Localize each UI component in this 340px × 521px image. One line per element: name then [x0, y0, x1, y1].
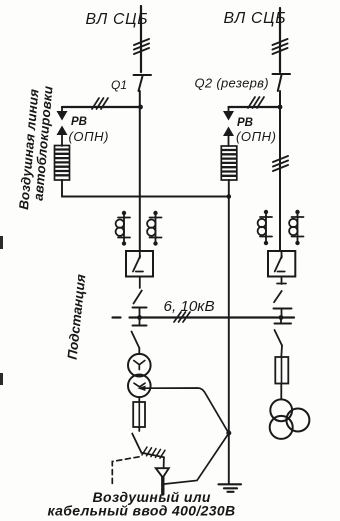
svg-text:Q2 (резерв): Q2 (резерв)	[195, 76, 269, 91]
arrow down FV2	[228, 107, 230, 112]
wire funnel to ground node	[165, 434, 229, 485]
node B junction dot	[278, 105, 283, 110]
line break slashes feeder B lower	[273, 156, 288, 171]
breaker cell box B	[268, 251, 295, 277]
breaker cell box A	[126, 251, 153, 277]
svg-text:РВ: РВ	[71, 116, 87, 128]
current transformer TA3 right	[258, 210, 272, 245]
phase slashes on wire B	[248, 97, 264, 108]
wire feeder A upper	[140, 6, 142, 72]
transformer T1 winding 1	[128, 354, 151, 377]
wire feeder A lower	[139, 91, 141, 251]
svg-text:(ОПН): (ОПН)	[236, 129, 277, 144]
node A junction dot	[138, 105, 143, 110]
svg-text:ВЛ СЦБ: ВЛ СЦБ	[224, 10, 287, 27]
wire T1 neutral to ground node	[144, 388, 229, 433]
scan smudge left edge 2	[0, 373, 3, 385]
disconnector QS1 upper	[134, 291, 142, 304]
wire to arrester FV2	[229, 106, 281, 108]
wire arrester FV1 to ground bus	[62, 180, 229, 197]
svg-text:Подстанция: Подстанция	[65, 273, 89, 360]
disconnector QS2 lower left	[139, 318, 141, 326]
wire box B to disconnector	[281, 277, 283, 285]
wire fuse to transformer T2	[280, 384, 282, 400]
scan smudge left edge 1	[0, 236, 3, 249]
node busbar B dot	[279, 315, 284, 320]
disconnector QS4 lower right	[280, 318, 282, 324]
wire feeder B lower	[279, 91, 281, 251]
fuse FU1	[133, 402, 145, 427]
busbar 6-10kV	[113, 316, 121, 318]
wire feeder B upper	[279, 8, 281, 72]
switch Q2	[273, 73, 291, 75]
node ground junction dot	[226, 431, 231, 436]
node busbar A dot	[137, 315, 142, 320]
wire T1 to fuse	[138, 397, 140, 402]
phase slashes on wire A	[92, 98, 108, 109]
wire ground conductor	[228, 180, 230, 484]
arrow down FV1	[61, 107, 63, 112]
svg-text:(ОПН): (ОПН)	[69, 129, 110, 144]
transformer T1 winding 2	[128, 375, 151, 398]
current transformer TA2 left	[147, 211, 161, 246]
arrow up FV2	[223, 127, 234, 137]
arrow up FV1	[57, 126, 68, 136]
transformer T2 three phase	[270, 399, 292, 421]
current transformer TA1 left	[116, 211, 130, 246]
wire box A to disconnector	[139, 277, 141, 289]
wire to arrester FV1	[62, 106, 141, 108]
node dot FV2 bottom	[227, 194, 232, 199]
svg-text:РВ: РВ	[237, 117, 253, 129]
switch Q1	[134, 74, 152, 76]
arrester FV1 (hatched box)	[55, 146, 70, 181]
svg-text:кабельный ввод 400/230В: кабельный ввод 400/230В	[48, 503, 236, 519]
arrester FV2 (hatched box)	[221, 146, 237, 180]
dashed cable route	[112, 457, 139, 487]
line break slashes feeder A	[134, 39, 149, 54]
ground	[219, 484, 242, 492]
phase slashes on busbar	[174, 312, 190, 322]
line break slashes feeder B upper	[273, 39, 288, 54]
cable funnel	[163, 457, 165, 468]
current transformer TA4 right	[289, 210, 303, 245]
wall bushing hatched	[142, 453, 165, 458]
switch blade low voltage	[132, 434, 141, 453]
fuse FU2	[275, 357, 288, 384]
svg-text:Q1: Q1	[111, 78, 127, 92]
svg-text:ВЛ СЦБ: ВЛ СЦБ	[86, 11, 149, 28]
disconnector QS3 upper right	[274, 291, 282, 302]
